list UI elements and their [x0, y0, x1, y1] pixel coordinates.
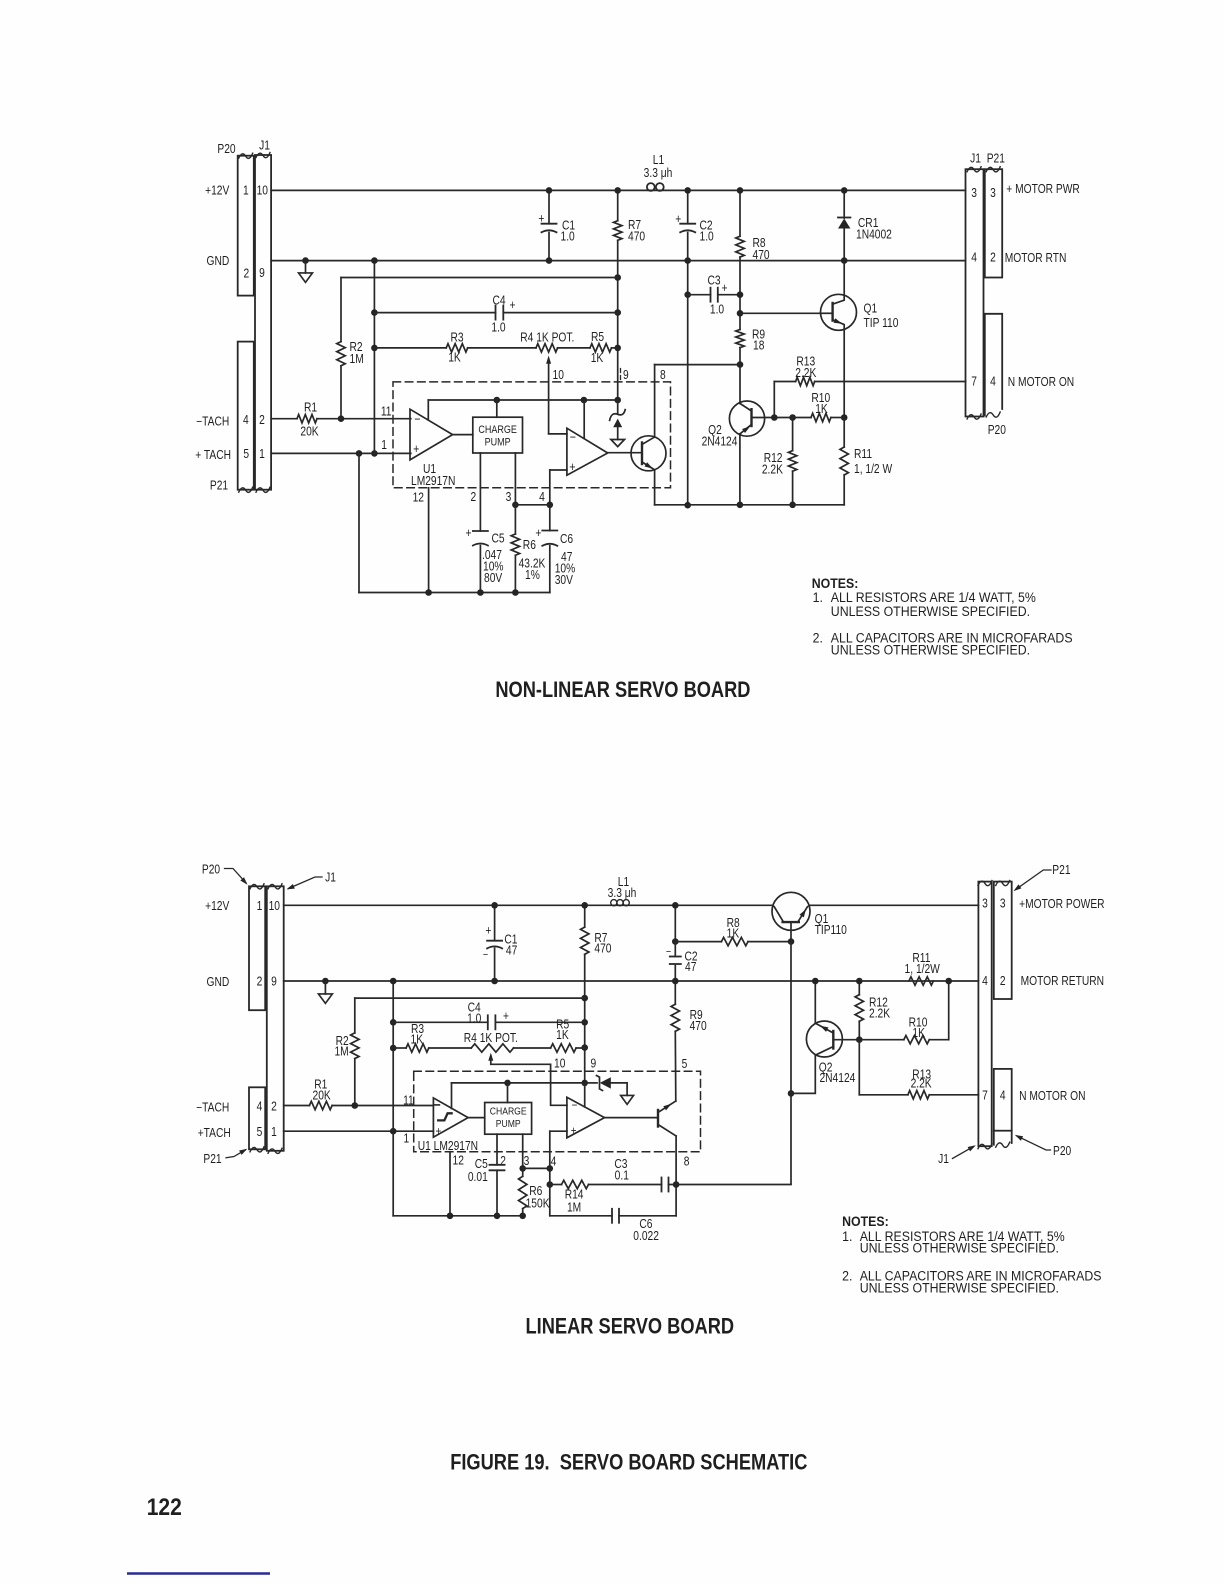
svg-text:+TACH: +TACH	[198, 1127, 231, 1140]
svg-text:LINEAR SERVO BOARD: LINEAR SERVO BOARD	[526, 1315, 735, 1339]
break mark left bar bottom B	[250, 1147, 264, 1152]
junction R5 right B	[581, 1044, 588, 1051]
svg-text:UNLESS OTHERWISE SPECIFIED.: UNLESS OTHERWISE SPECIFIED.	[831, 604, 1030, 620]
potentiometer R4 1K B	[471, 1044, 513, 1052]
wire pin 9 vertical B	[584, 954, 586, 1083]
arrow Q1 emitter	[834, 318, 843, 324]
wire R5 right B	[576, 1047, 585, 1049]
svg-text:2: 2	[990, 252, 996, 265]
junction charge pump top	[494, 397, 501, 404]
wire R4 to R5	[558, 347, 590, 349]
wire to charge pump top	[496, 400, 498, 417]
connector J1 right bar (bottom schem)	[267, 886, 284, 1151]
svg-text:0.022: 0.022	[633, 1230, 659, 1243]
svg-text:10: 10	[554, 1058, 565, 1071]
junction Q2 emitter at rail	[737, 502, 744, 509]
svg-text:9: 9	[590, 1058, 596, 1071]
wire pin 4 vertical B	[549, 1131, 551, 1216]
svg-text:P21: P21	[210, 480, 228, 493]
wire +TACH down to lower rail	[358, 453, 360, 592]
svg-text:NOTES:: NOTES:	[842, 1214, 889, 1230]
arrow Q2 emitter	[742, 426, 750, 433]
svg-text:−: −	[666, 946, 671, 958]
wire op-amp 1 output to charge pump	[453, 434, 473, 436]
junction Q2 collector B	[788, 1090, 795, 1097]
junction R1/R2	[338, 415, 345, 422]
connector P20 left bar (upper segment)	[238, 156, 254, 296]
resistor R14	[550, 1184, 562, 1186]
svg-text:9: 9	[623, 369, 629, 382]
wire op-amp 1 output to charge pump B	[468, 1117, 485, 1119]
junction R6 at rail	[512, 589, 519, 596]
wire lower ground rail B	[393, 1215, 523, 1217]
break mark right bar top B	[268, 884, 282, 889]
op-amp U1 second stage B	[567, 1097, 605, 1138]
svg-text:R4 1K POT.: R4 1K POT.	[464, 1032, 518, 1045]
arrow U1 emitter B	[663, 1104, 671, 1111]
wire pin 4 to plus input B	[550, 1130, 567, 1132]
svg-text:80V: 80V	[484, 572, 503, 585]
junction at GND rail	[371, 257, 378, 264]
arrow U1 transistor emitter	[645, 462, 653, 468]
svg-text:U1 LM2917N: U1 LM2917N	[418, 1140, 478, 1153]
svg-text:+: +	[538, 213, 544, 226]
svg-text:3: 3	[990, 187, 996, 200]
junction Q1 base B	[788, 938, 795, 945]
resistor R12	[792, 418, 794, 451]
svg-text:R5: R5	[591, 331, 604, 344]
junction R12 top B	[856, 978, 863, 985]
connector P20 left bar (lower segment)	[238, 342, 254, 490]
wire R2 top to R7 bottom B	[355, 997, 585, 999]
arrow Q2 emitter B	[820, 1026, 828, 1032]
junction pin 12 at rail B	[447, 1213, 454, 1220]
wire pin3-pin4 bridge	[515, 504, 549, 506]
junction C5 at rail	[477, 589, 484, 596]
svg-text:−: −	[570, 429, 576, 444]
junction C2 top	[684, 187, 691, 194]
svg-text:1, 1/2 W: 1, 1/2 W	[854, 463, 892, 476]
wire R10 up to MOTOR RETURN B	[948, 981, 950, 1040]
svg-text:C5: C5	[492, 532, 505, 545]
svg-text:8: 8	[660, 369, 666, 382]
svg-text:J1: J1	[259, 139, 270, 152]
wire emitter/ground rail right	[655, 504, 845, 506]
transistor Q2 2N4124	[729, 401, 764, 436]
svg-text:P20: P20	[988, 424, 1006, 437]
resistor R11 B	[909, 977, 933, 985]
break mark J1 bar bottom	[256, 487, 270, 492]
transistor U1 output	[631, 436, 666, 471]
break mark J1 right top B	[978, 881, 992, 886]
junction R8 left B	[672, 938, 679, 945]
junction C1 bottom	[546, 257, 553, 264]
callout line J1	[289, 877, 323, 889]
hysteresis symbol	[438, 1113, 451, 1120]
svg-text:470: 470	[753, 249, 770, 262]
svg-text:CHARGE: CHARGE	[478, 424, 517, 436]
svg-text:FIGURE 19. SERVO BOARD SCHEMA: FIGURE 19. SERVO BOARD SCHEMATIC	[450, 1451, 808, 1475]
svg-text:+: +	[535, 527, 541, 540]
junction at GND rail B	[390, 978, 397, 985]
capacitor C6 B	[550, 1215, 612, 1217]
svg-text:P20: P20	[202, 864, 220, 877]
capacitor C3 B	[661, 1178, 663, 1192]
capacitor C2	[687, 190, 689, 223]
resistor R5 B	[551, 1044, 576, 1052]
svg-text:+: +	[722, 282, 728, 295]
svg-text:1K: 1K	[556, 1029, 569, 1042]
svg-text:9: 9	[271, 976, 277, 989]
svg-text:C5: C5	[475, 1158, 488, 1171]
svg-text:1: 1	[403, 1133, 409, 1146]
svg-text:1.0: 1.0	[467, 1012, 481, 1025]
callout line P20 right-bottom B	[1017, 1136, 1051, 1150]
svg-text:1, 1/2W: 1, 1/2W	[905, 963, 940, 976]
svg-text:+MOTOR POWER: +MOTOR POWER	[1019, 898, 1104, 911]
svg-text:1.: 1.	[842, 1228, 852, 1244]
svg-text:11: 11	[403, 1095, 414, 1108]
svg-text:4: 4	[971, 252, 977, 265]
capacitor C3	[688, 294, 711, 296]
dashed box U1 LM2917N B	[414, 1071, 701, 1152]
zener diode internal	[617, 400, 619, 414]
capacitor C1 B	[494, 905, 496, 940]
junction R3 left	[371, 345, 378, 352]
callout line P21 right B	[1016, 870, 1051, 889]
break mark P20 right top B	[996, 881, 1010, 886]
wire pin 4 to plus input	[550, 469, 567, 471]
connector P20 bar lower B	[994, 1069, 1012, 1131]
svg-text:−: −	[483, 949, 488, 961]
wire R2 top to R7 bottom	[341, 277, 618, 279]
svg-text:R4 1K POT.: R4 1K POT.	[520, 332, 574, 345]
break mark right bar bottom B	[268, 1148, 282, 1153]
svg-text:1M: 1M	[567, 1201, 581, 1214]
svg-text:4: 4	[539, 491, 545, 504]
connector P20 left bar upper (bottom schem)	[249, 886, 265, 1010]
svg-text:1K: 1K	[448, 351, 461, 364]
charge pump block U1 B	[485, 1103, 532, 1135]
svg-text:C6: C6	[639, 1218, 652, 1231]
junction CR1 bottom	[841, 257, 848, 264]
inductor L1	[647, 183, 655, 191]
junction C1 top B	[491, 902, 498, 909]
svg-text:1.0: 1.0	[491, 322, 505, 335]
svg-text:+ TACH: + TACH	[195, 449, 231, 462]
junction R11 right B	[945, 978, 952, 985]
wire pin 2 / C5	[479, 453, 481, 531]
wire to Q2 collector	[739, 365, 741, 403]
svg-text:4: 4	[1000, 1090, 1006, 1103]
svg-text:1: 1	[259, 448, 265, 461]
junction gnd stem	[302, 257, 309, 264]
capacitor C5	[473, 530, 488, 532]
wire pin 5 vertical B	[674, 1031, 677, 1101]
junction R7 top	[614, 187, 621, 194]
junction Q1 base wire	[737, 310, 744, 317]
wire R9 bottom	[739, 348, 741, 365]
svg-text:LM2917N: LM2917N	[411, 475, 455, 488]
diode CR1 1N4002	[843, 190, 845, 218]
svg-text:470: 470	[690, 1020, 707, 1033]
resistor R8 B	[675, 941, 721, 943]
svg-text:UNLESS OTHERWISE SPECIFIED.: UNLESS OTHERWISE SPECIFIED.	[860, 1280, 1059, 1296]
wire R3/R4/R5 row B	[393, 1047, 406, 1049]
wire R4 wiper to op-amp 2 minus B	[491, 1061, 567, 1106]
wire to op-amp 2 top B	[584, 1083, 586, 1107]
svg-text:−: −	[572, 1099, 578, 1112]
svg-text:1.: 1.	[813, 589, 823, 605]
svg-text:+: +	[510, 299, 516, 312]
wire op-amp 2 output to base B	[605, 1117, 659, 1119]
junction pin 9 feedback	[614, 397, 621, 404]
break mark J1 right top	[967, 167, 981, 172]
svg-text:C4: C4	[492, 294, 506, 307]
svg-text:+: +	[569, 459, 575, 474]
junction CR1 top	[841, 187, 848, 194]
capacitor C6	[542, 530, 557, 532]
svg-text:2: 2	[271, 1101, 277, 1114]
svg-text:1: 1	[271, 1126, 277, 1139]
svg-text:1M: 1M	[350, 353, 364, 366]
svg-text:1: 1	[243, 185, 249, 198]
svg-text:3: 3	[971, 187, 977, 200]
break mark J1 bar top	[256, 153, 270, 158]
svg-text:12: 12	[453, 1155, 464, 1168]
svg-text:P20: P20	[217, 143, 235, 156]
wire feedback to op-amp 1	[427, 400, 429, 420]
resistor R13	[774, 381, 795, 383]
arrow R4 wiper B	[488, 1053, 493, 1061]
wire pin 8 to Q1 base line B	[676, 1184, 791, 1186]
junction ground stem B	[322, 978, 329, 985]
svg-text:18: 18	[753, 339, 764, 352]
svg-text:P21: P21	[203, 1153, 221, 1166]
svg-text:4: 4	[257, 1101, 263, 1114]
svg-text:11: 11	[381, 406, 392, 419]
svg-text:1K: 1K	[411, 1034, 424, 1047]
svg-text:MOTOR RTN: MOTOR RTN	[1005, 252, 1067, 265]
wire lower ground rail	[359, 592, 550, 594]
connector P20 bar upper B	[994, 882, 1012, 999]
resistor R10	[811, 413, 831, 421]
capacitor C4	[374, 312, 495, 314]
connector P21 bar upper segment	[985, 169, 1002, 277]
svg-text:1: 1	[257, 900, 263, 913]
svg-text:10: 10	[257, 185, 268, 198]
svg-text:PUMP: PUMP	[485, 437, 511, 449]
svg-text:2.2K: 2.2K	[795, 367, 816, 380]
svg-text:2.2K: 2.2K	[911, 1078, 932, 1091]
callout line P21	[226, 1150, 246, 1158]
svg-text:1K: 1K	[815, 403, 828, 416]
wire Q1 base down B	[790, 942, 792, 1184]
svg-text:5: 5	[682, 1058, 688, 1071]
wire op-amp 2 output to transistor base	[608, 452, 642, 454]
svg-text:2.2K: 2.2K	[869, 1007, 890, 1020]
svg-text:C6: C6	[560, 533, 573, 546]
wire pin 9 vertical	[617, 240, 619, 400]
resistor R12 B	[858, 981, 860, 995]
svg-text:+12V: +12V	[205, 185, 230, 198]
svg-text:1K: 1K	[591, 352, 604, 365]
connector J1 bar right B	[978, 882, 991, 1147]
capacitor C5 B	[490, 1164, 505, 1166]
svg-text:10: 10	[269, 900, 280, 913]
transistor Q2 2N4124 B	[806, 1021, 842, 1057]
junction pin 3 bridge	[512, 502, 519, 509]
callout line J1 right-bottom B	[953, 1147, 974, 1159]
wire vertical GND to lower rail B	[392, 981, 394, 1216]
junction C4 left	[371, 309, 378, 316]
wire +TACH	[271, 452, 411, 454]
svg-text:PUMP: PUMP	[496, 1118, 521, 1130]
minus input dash	[435, 1104, 440, 1106]
junction op-amp 2 minus node	[581, 397, 588, 404]
svg-text:2.: 2.	[813, 630, 823, 646]
resistor R8	[739, 190, 741, 236]
wire Q2 base node	[752, 417, 812, 419]
svg-text:3.3 μh: 3.3 μh	[644, 167, 673, 180]
break mark P20 bar top	[239, 153, 253, 158]
junction pin 3 bridge B	[519, 1165, 526, 1172]
junction C1 top	[546, 187, 553, 194]
svg-text:1N4002: 1N4002	[856, 228, 892, 241]
resistor R13 B	[858, 1040, 860, 1095]
wire R13 to Q2 base node	[773, 382, 775, 418]
capacitor C1	[548, 190, 550, 223]
junction pin 4 bridge B	[547, 1165, 554, 1172]
svg-text:1.0: 1.0	[700, 231, 714, 244]
junction R12 top	[789, 414, 796, 421]
svg-text:470: 470	[628, 231, 645, 244]
junction R7 top B	[581, 902, 588, 909]
svg-text:4: 4	[551, 1156, 557, 1169]
wire ground stem B	[324, 981, 326, 994]
svg-text:R14: R14	[565, 1189, 584, 1202]
junction C3 right B	[673, 1181, 680, 1188]
junction R6 at rail B	[519, 1213, 526, 1220]
svg-text:1K: 1K	[727, 928, 740, 941]
svg-text:+: +	[436, 1125, 442, 1138]
ground symbol zener B	[621, 1095, 634, 1104]
svg-text:2: 2	[259, 414, 265, 427]
junction pin 1 node B	[390, 1128, 397, 1135]
svg-text:3: 3	[506, 491, 512, 504]
wire to op-amp 2 top edge	[583, 400, 585, 438]
break mark J1 right bottom B	[978, 1144, 992, 1149]
junction R10/R11/Q1emitter	[841, 414, 848, 421]
svg-text:P21: P21	[1052, 864, 1070, 877]
svg-text:+: +	[503, 1010, 509, 1023]
transistor Q1 TIP 110	[821, 294, 857, 330]
callout line P20	[225, 869, 247, 884]
svg-text:20K: 20K	[300, 425, 319, 438]
inductor L1 B	[611, 900, 617, 906]
ground symbol	[299, 273, 313, 283]
svg-text:P21: P21	[987, 152, 1005, 165]
wire pin 12 B	[449, 1152, 451, 1216]
resistor R3	[446, 344, 467, 352]
svg-text:2: 2	[471, 491, 477, 504]
wire pin 8 vertical B	[675, 1136, 677, 1216]
connector P20 bar lower extension B	[994, 1131, 1012, 1145]
svg-text:4: 4	[243, 414, 249, 427]
svg-text:+: +	[485, 925, 491, 938]
charge pump block U1	[473, 417, 523, 453]
svg-text:L1: L1	[653, 154, 664, 167]
break mark J1 right bottom	[967, 414, 981, 419]
wire R4 wiper to op-amp 2 minus	[548, 364, 550, 434]
svg-text:C3: C3	[707, 275, 720, 288]
svg-text:UNLESS OTHERWISE SPECIFIED.: UNLESS OTHERWISE SPECIFIED.	[860, 1240, 1059, 1256]
arrow R4 wiper	[546, 356, 551, 364]
junction C3 right	[737, 291, 744, 298]
junction R13/base	[771, 414, 778, 421]
connector J1 bar (right)	[966, 169, 984, 416]
svg-text:Q1: Q1	[864, 303, 878, 316]
junction C2/GND B	[672, 978, 679, 985]
svg-text:1K: 1K	[912, 1027, 925, 1040]
svg-text:7: 7	[982, 1090, 988, 1103]
resistor R6 B	[519, 1176, 527, 1208]
resistor R6	[511, 534, 519, 555]
junction C5 at rail B	[494, 1213, 501, 1220]
svg-text:R6: R6	[523, 539, 536, 552]
svg-text:150K: 150K	[526, 1198, 550, 1211]
svg-text:R6: R6	[529, 1185, 542, 1198]
svg-text:470: 470	[594, 943, 611, 956]
resistor R2	[340, 278, 342, 342]
wire +TACH B	[284, 1130, 434, 1132]
junction R14 left B	[547, 1181, 554, 1188]
junction pin 1 node	[371, 450, 378, 457]
svg-text:7: 7	[971, 376, 977, 389]
svg-text:2.: 2.	[842, 1268, 852, 1284]
svg-text:0.01: 0.01	[468, 1171, 488, 1184]
break mark P20 right bottom B	[996, 1142, 1010, 1147]
transistor Q1 TIP110 B	[772, 892, 810, 930]
svg-text:30V: 30V	[555, 574, 574, 587]
wire pin 2 / C5 B	[496, 1134, 498, 1165]
svg-text:3: 3	[982, 897, 988, 910]
wire vertical GND to pin1	[373, 261, 375, 454]
wire +12V rail B	[284, 904, 773, 906]
svg-text:J1: J1	[970, 152, 981, 165]
wire R3 to R4 B	[429, 1047, 471, 1049]
wire pin 12	[428, 488, 430, 593]
resistor R1	[271, 418, 297, 420]
junction C4 left B	[390, 1019, 397, 1026]
svg-text:122: 122	[147, 1492, 182, 1520]
svg-text:+: +	[571, 1124, 577, 1137]
break mark P20 bar bottom	[239, 487, 253, 492]
svg-text:0.1: 0.1	[615, 1170, 629, 1183]
junction C3 left	[684, 291, 691, 298]
junction Q2 emitter at rail B	[812, 978, 819, 985]
svg-text:N MOTOR ON: N MOTOR ON	[1008, 376, 1074, 389]
resistor R11	[843, 418, 845, 448]
svg-text:3.3 μh: 3.3 μh	[608, 887, 637, 900]
junction C2 line at bottom rail	[684, 502, 691, 509]
wire ground stem	[305, 261, 307, 273]
capacitor C4 B	[393, 1021, 488, 1023]
svg-text:20K: 20K	[312, 1090, 331, 1103]
wire pin 8 to R9 bottom	[655, 364, 740, 366]
junction C2 top B	[672, 902, 679, 909]
svg-text:2N4124: 2N4124	[702, 435, 738, 448]
